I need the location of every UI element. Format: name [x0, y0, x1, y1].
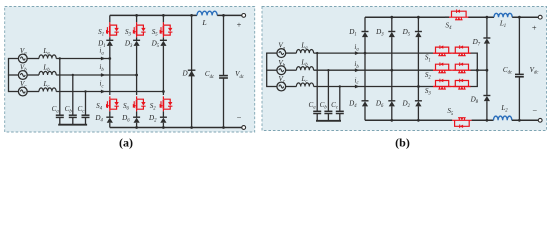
transistor S1 first mosfet (b): [433, 52, 451, 54]
node: phase a junction (a): [108, 57, 111, 60]
wire: Cb to common bar (a): [72, 117, 74, 124]
diode D3 (b): [388, 31, 395, 33]
diode D3 (a): [133, 39, 140, 41]
wire: Cdc leg upper (a): [223, 15, 225, 75]
panel (a) background box: [5, 7, 255, 133]
wire: source Vb to neutral (b): [266, 69, 277, 71]
wire: leg D3 upper (b): [391, 17, 393, 31]
wire: leg D1 upper (b): [364, 17, 366, 31]
wire: Vc to Lc (a): [27, 91, 39, 93]
node: top bus junction leg 3 (a): [162, 14, 165, 17]
wire: leg 1 middle (a): [109, 46, 111, 95]
diode D5 (b): [415, 31, 422, 33]
wire: switch row S3 line (b): [433, 86, 471, 88]
wire: S5 to D8 junction (b): [472, 119, 494, 121]
wire: phase b to bridge (b): [314, 69, 392, 71]
node: phase c junction (b): [417, 85, 420, 88]
capacitor Ca (b): [313, 110, 321, 112]
wire: leg 1 top bus to switch (a): [109, 15, 111, 22]
diode D4 (a): [106, 116, 113, 118]
wire: switch row S2 line (b): [433, 69, 471, 71]
wire: neutral bus left (b): [266, 53, 268, 86]
wire: L2 to - terminal (b): [512, 119, 539, 121]
node: D8 leg bottom junction (b): [486, 119, 489, 122]
node: Cdc leg bottom (b): [518, 119, 521, 122]
current arrow ic (b): [355, 85, 360, 89]
wire: bridge top bus (b): [365, 16, 445, 18]
current arrow ic (a): [101, 90, 106, 94]
- terminal (a): [242, 126, 246, 130]
transistor S3 (a): [137, 22, 144, 37]
transistor S4 (a): [110, 96, 117, 111]
wire: switch row S1 line (b): [433, 52, 471, 54]
wire: freewheel diode leg (a): [191, 15, 193, 127]
node: bottom bus junction D2 (b): [417, 119, 420, 122]
wire: leg 2 top bus to switch (a): [136, 15, 138, 22]
current arrow ia (a): [101, 57, 106, 61]
wire: leg 2 middle (a): [136, 46, 138, 95]
wire: bridge bottom bus (b): [365, 119, 452, 121]
wire: phase b to leg (a): [56, 74, 136, 76]
diode D1 (a): [106, 39, 113, 41]
svg-text:−: −: [237, 114, 242, 123]
wire: Vb to Lb (a): [27, 74, 39, 76]
wire: Va to La (a): [27, 58, 39, 60]
transistor S2 first mosfet (b): [433, 69, 451, 71]
node: top bus to Cdc leg (a): [222, 14, 225, 17]
inductor L2 (b): [494, 116, 512, 120]
wire: leg 1 lower (b): [364, 106, 366, 120]
current arrow ia (b): [355, 51, 360, 55]
diode D (a): [188, 69, 196, 71]
diode D5 (a): [160, 39, 167, 41]
node: top bus junction leg 2 (a): [135, 14, 138, 17]
inductor Lc (a): [39, 88, 56, 92]
wire: Cc to common bar (a): [85, 117, 87, 124]
wire: neutral bus left (a): [8, 59, 10, 92]
node: top bus to Cdc leg (b): [518, 16, 521, 19]
wire: tap to capacitor Cc (a): [85, 92, 87, 116]
node: top bus junction D5 (b): [417, 16, 420, 19]
wire: source Va to neutral (b): [266, 52, 277, 54]
wire: leg 2 lower (b): [391, 106, 393, 120]
capacitor Cb (b): [324, 110, 332, 112]
wire: Cdc leg upper (b): [518, 17, 520, 74]
wire: tap to capacitor Cc (b): [339, 87, 341, 112]
wire: S2 to D2 (a): [162, 111, 164, 117]
wire: phase c to leg (a): [56, 91, 163, 93]
capacitor Cc (a): [82, 114, 90, 116]
wire: capacitor common bar (a): [58, 124, 87, 126]
wire: leg 2 to bottom bus (a): [136, 123, 138, 128]
voltage source Va (a): [18, 54, 27, 63]
node: phase b junction (b): [390, 69, 393, 72]
capacitor Cdc (a): [219, 75, 228, 77]
wire: source Vc to neutral (b): [266, 86, 277, 88]
transistor S6 (a): [137, 96, 144, 111]
svg-text:D: D: [181, 70, 188, 78]
voltage source Va (b): [277, 49, 286, 58]
inductor L1 (b): [494, 13, 512, 17]
transistor S1 second mosfet (b): [453, 52, 471, 54]
capacitor Cb (a): [69, 114, 77, 116]
voltage source Vb (b): [277, 66, 286, 75]
wire: source Vc to neutral (a): [8, 91, 19, 93]
transistor S5 (b): [452, 119, 472, 121]
transistor S4 (b): [449, 16, 469, 18]
wire: S4 to D4 (a): [109, 111, 111, 117]
wire: tap to capacitor Cb (b): [327, 70, 329, 111]
voltage source Vc (a): [18, 87, 27, 96]
wire: L1 to + terminal (b): [512, 16, 538, 18]
capacitor Cc (b): [336, 110, 344, 112]
panel (b) background box: [262, 7, 547, 131]
inductor La (b): [296, 50, 313, 54]
diode D2 (b): [415, 100, 422, 102]
diode D7 (b): [483, 37, 490, 39]
svg-text:(b): (b): [395, 136, 410, 150]
wire: S3 to common vertical (b): [471, 70, 478, 86]
+ terminal (b): [538, 15, 542, 19]
wire: D8 to bottom bus (b): [486, 101, 488, 120]
wire: S5 to D5 (a): [162, 37, 164, 40]
wire: D7 leg upper (b): [486, 17, 488, 38]
wire: phase a to leg (a): [56, 58, 110, 60]
svg-text:(a): (a): [119, 136, 133, 150]
wire: S1 to D1 (a): [109, 37, 111, 40]
diode D6 (b): [388, 100, 395, 102]
transistor S2 second mosfet (b): [453, 69, 471, 71]
diode D2 (a): [160, 116, 167, 118]
node: phase c junction (a): [162, 90, 165, 93]
wire: leg 3 top bus to switch (a): [162, 15, 164, 22]
svg-text:−: −: [532, 106, 537, 115]
node: midpoint junction (b): [486, 69, 489, 72]
capacitor Ca (a): [56, 114, 64, 116]
wire: phase a to switch S1 (b): [365, 52, 433, 54]
inductor Lb (a): [39, 71, 56, 75]
node: switch common junction (b): [476, 69, 479, 72]
voltage source Vb (a): [18, 71, 27, 80]
wire: phase c to switch S3 (b): [418, 86, 433, 88]
wire: Cdc leg lower (b): [518, 77, 520, 121]
svg-text:+: +: [532, 23, 537, 32]
wire: midpoint to D8 (b): [486, 70, 488, 95]
diode D1 (b): [362, 31, 369, 33]
wire: Vb to Lb (b): [286, 69, 297, 71]
current arrow ib (a): [101, 73, 106, 77]
wire: leg 1 to bottom bus (a): [109, 123, 111, 128]
wire: leg 3 middle (a): [162, 46, 164, 95]
wire: capacitor common bar (b): [316, 120, 341, 122]
node: top bus to D leg (a): [190, 14, 193, 17]
wire: leg 1 middle (b): [364, 37, 366, 101]
wire: Cdc leg lower (a): [223, 78, 225, 128]
node: top bus to D7 leg (b): [486, 16, 489, 19]
inductor Lb (b): [296, 67, 313, 71]
wire: leg 2 middle (b): [391, 37, 393, 101]
transistor S2 (a): [163, 96, 170, 111]
transistor S3 second mosfet (b): [453, 86, 471, 88]
wire: Cc to common bar (b): [339, 114, 341, 121]
node: bottom bus junction D6 (b): [390, 119, 393, 122]
- terminal (b): [538, 118, 542, 122]
node: bottom bus junction leg 3 (a): [162, 126, 165, 129]
node: phase b junction (a): [135, 74, 138, 77]
wire: leg 3 lower (b): [417, 106, 419, 120]
diode D4 (b): [362, 100, 369, 102]
wire: L to + terminal (a): [217, 14, 242, 16]
wire: Ca to common bar (b): [316, 114, 318, 121]
node: phase a junction (b): [364, 52, 367, 55]
wire: S1 to common vertical (b): [471, 53, 478, 70]
wire: leg 3 to bottom bus (a): [162, 123, 164, 128]
wire: Va to La (b): [286, 52, 297, 54]
wire: top bus after S4 (b): [468, 16, 494, 18]
wire: Cb to common bar (b): [327, 114, 329, 121]
wire: source Va to neutral (a): [8, 58, 19, 60]
node: bottom bus junction leg 2 (a): [135, 126, 138, 129]
inductor La (a): [39, 55, 56, 59]
node: D leg bottom (a): [190, 126, 193, 129]
+ terminal (a): [242, 14, 246, 18]
wire: leg 3 middle (b): [417, 37, 419, 101]
inductor L (a, dc side): [197, 11, 217, 15]
wire: S6 to D6 (a): [136, 111, 138, 117]
wire: bottom bus (a): [110, 127, 242, 129]
wire: phase a to bridge (b): [314, 52, 365, 54]
transistor S1 (a): [110, 22, 117, 37]
diode D6 (a): [133, 116, 140, 118]
capacitor Cdc (b): [515, 73, 524, 75]
wire: tap to capacitor Cb (a): [72, 75, 74, 115]
wire: tap to capacitor Ca (a): [59, 59, 61, 116]
voltage source Vc (b): [277, 82, 286, 91]
wire: phase c to bridge (b): [314, 86, 419, 88]
wire: S3 to D3 (a): [136, 37, 138, 40]
wire: source Vb to neutral (a): [8, 74, 19, 76]
wire: top bus through S4 (b): [445, 16, 449, 18]
node: Cdc leg bottom (a): [222, 126, 225, 129]
inductor Lc (b): [296, 83, 313, 87]
wire: D7 to midpoint (b): [486, 44, 488, 71]
svg-text:+: +: [237, 21, 242, 30]
transistor S5 (a): [163, 22, 170, 37]
wire: tap to capacitor Ca (b): [316, 53, 318, 111]
wire: top bus (a): [110, 14, 197, 16]
wire: phase b to switch S2 (b): [392, 69, 433, 71]
wire: leg D5 upper (b): [417, 17, 419, 31]
transistor S3 first mosfet (b): [433, 86, 451, 88]
wire: Vc to Lc (b): [286, 86, 297, 88]
svg-text:L: L: [201, 18, 206, 27]
diode D8 (b): [483, 95, 490, 97]
node: top bus junction D3 (b): [390, 16, 393, 19]
wire: S2 to midpoint (b): [471, 69, 487, 71]
current arrow ib (b): [355, 68, 360, 72]
wire: Ca to common bar (a): [59, 117, 61, 124]
